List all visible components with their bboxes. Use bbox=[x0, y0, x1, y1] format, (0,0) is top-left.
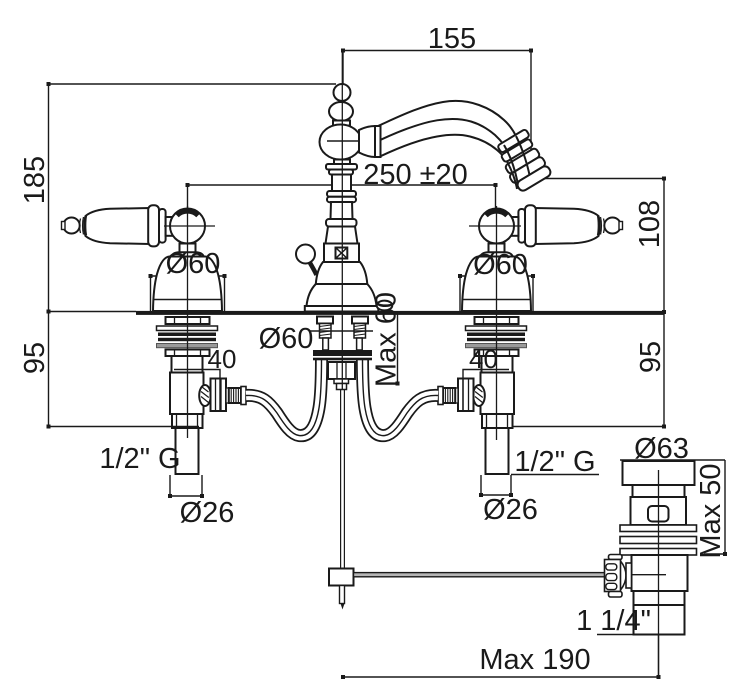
svg-text:Max 190: Max 190 bbox=[479, 644, 590, 676]
right handle end knob bbox=[604, 218, 620, 234]
main body ball bbox=[320, 125, 362, 160]
right tee body bbox=[481, 373, 515, 415]
right stud nut bbox=[352, 317, 368, 324]
right handle collar disc 2 bbox=[518, 209, 525, 243]
dim Max190 right extension bbox=[658, 635, 660, 678]
right knob tip bbox=[619, 222, 623, 230]
overflow window bbox=[648, 506, 669, 522]
right shank bbox=[482, 356, 513, 373]
right stud rod bbox=[357, 338, 363, 350]
column neck bbox=[334, 160, 350, 165]
left outlet neck bbox=[226, 388, 229, 403]
rod line inside body bbox=[632, 574, 667, 576]
left outlet collar bbox=[241, 387, 246, 405]
column cylinder 2 bbox=[331, 202, 353, 219]
right handle neck bbox=[507, 217, 518, 236]
dim 155 line bbox=[343, 50, 531, 52]
UNDER-DECK bbox=[157, 317, 527, 474]
right washer 2 black bbox=[467, 333, 525, 337]
rod grommet oval bbox=[377, 301, 393, 311]
right bell inner line bbox=[463, 299, 530, 301]
valve block bbox=[324, 244, 359, 263]
aerator band 2 bbox=[501, 138, 534, 162]
drain step bbox=[634, 591, 685, 605]
dim O63 top line bbox=[620, 459, 725, 461]
bell tier 2 bbox=[307, 284, 377, 306]
center shank nut bbox=[328, 362, 355, 379]
left tee outlet cap bbox=[199, 385, 211, 406]
dim 95 right bottom extension bbox=[509, 426, 664, 428]
DRAIN bbox=[605, 461, 697, 635]
HANDLES bbox=[62, 205, 623, 311]
FAUCET bbox=[296, 84, 552, 312]
dim 1-1/4 underline bbox=[597, 634, 685, 636]
left handle grip bbox=[84, 208, 149, 244]
dim 95 left bottom extension bbox=[49, 426, 200, 428]
left knob tip bbox=[62, 222, 66, 230]
svg-text:1 1/4": 1 1/4" bbox=[576, 605, 651, 637]
dim Max50 bracket bbox=[704, 460, 725, 554]
right ball index cap bbox=[484, 208, 509, 217]
svg-text:Ø63: Ø63 bbox=[634, 433, 689, 465]
pop-up knob bbox=[296, 245, 315, 264]
svg-text:40: 40 bbox=[469, 344, 498, 374]
right locknut bbox=[475, 317, 519, 324]
left washer 2 black bbox=[158, 333, 216, 337]
dim O26 left witness box bbox=[170, 475, 202, 496]
right collar below tee bbox=[482, 414, 513, 428]
horizontal rod bbox=[354, 573, 607, 577]
svg-text:Max 60: Max 60 bbox=[371, 292, 403, 387]
wheel connector bbox=[626, 563, 632, 588]
aerator band 3 bbox=[504, 147, 540, 174]
drain centerline bbox=[658, 470, 660, 677]
svg-text:185: 185 bbox=[19, 156, 51, 204]
left bell inner line bbox=[154, 299, 221, 301]
bell base ring bbox=[305, 306, 379, 312]
dim 108/95 right vertical line bbox=[663, 179, 665, 427]
pop-up knob arm bbox=[310, 262, 317, 275]
svg-text:40: 40 bbox=[208, 344, 237, 374]
rod clamp block bbox=[329, 569, 354, 586]
drain washer 1 bbox=[620, 525, 697, 532]
finial collar bbox=[333, 121, 350, 126]
clamp plate bbox=[313, 350, 372, 356]
spout body bbox=[378, 101, 516, 161]
bell tier 1 bbox=[316, 262, 368, 284]
deck plate line bbox=[136, 311, 664, 315]
dim 40 left leader bbox=[174, 370, 220, 413]
drain washer 3 bbox=[620, 549, 697, 556]
faucet centerline bbox=[341, 51, 343, 390]
svg-text:250 ±20: 250 ±20 bbox=[363, 159, 468, 191]
left inlet tube bbox=[176, 428, 199, 474]
left outlet hex nut bbox=[211, 379, 227, 412]
aerator band 5 bbox=[516, 165, 553, 193]
right tee outlet cap bbox=[473, 385, 485, 406]
HOSES bbox=[246, 359, 438, 436]
dim 1/2G right underline bbox=[511, 474, 599, 476]
dim 250 left stub bbox=[187, 185, 189, 208]
left stud thread bbox=[320, 324, 332, 339]
rod tip bbox=[341, 604, 345, 610]
svg-text:95: 95 bbox=[635, 341, 667, 373]
left handle centerline bbox=[187, 206, 189, 438]
right washer 1 bbox=[466, 326, 527, 331]
left handle collar disc 2 bbox=[159, 209, 166, 243]
drain tailpiece bbox=[634, 605, 685, 635]
svg-text:155: 155 bbox=[428, 23, 476, 55]
right stud thread bbox=[354, 324, 366, 339]
left stud nut bbox=[317, 317, 333, 324]
right valve skirt bbox=[480, 252, 513, 258]
right bell bbox=[462, 257, 531, 312]
right outlet neck bbox=[455, 388, 458, 403]
column cylinder 1 bbox=[332, 175, 351, 192]
aerator band 1 bbox=[497, 129, 530, 153]
dim 250 line bbox=[188, 184, 496, 186]
left washer 1 bbox=[157, 326, 218, 331]
spout hub flange bbox=[375, 126, 381, 157]
body ball center line bbox=[327, 140, 374, 142]
right inlet tube bbox=[486, 428, 509, 474]
centerline overlay bbox=[49, 51, 659, 678]
right handle centerline bbox=[496, 206, 498, 440]
svg-text:Ø60: Ø60 bbox=[166, 248, 221, 280]
svg-text:1/2" G: 1/2" G bbox=[99, 443, 180, 475]
CENTER UNDER-DECK bbox=[313, 317, 607, 610]
knurled clamp wheel bottom cap bbox=[609, 592, 623, 598]
dim 185 top extension bbox=[49, 83, 337, 85]
knurled clamp wheel body bbox=[605, 560, 621, 592]
wheel right lobe bbox=[621, 561, 627, 590]
column torus 1 bbox=[327, 191, 356, 197]
right washer 3 black bbox=[467, 338, 525, 341]
wheel slot 1 bbox=[606, 564, 617, 570]
left valve stem bbox=[180, 244, 196, 253]
dim O60 center leader bbox=[309, 330, 373, 332]
wheel slot 2 bbox=[606, 574, 617, 581]
drain neck bbox=[633, 485, 685, 497]
deck thin extension left bbox=[49, 311, 137, 313]
left handle neck bbox=[166, 217, 177, 236]
svg-text:Ø26: Ø26 bbox=[483, 494, 538, 526]
right washer 4 gray bbox=[466, 344, 527, 348]
left valve skirt bbox=[171, 252, 204, 258]
finial lower ball bbox=[329, 102, 353, 121]
spout bottom line over tip bbox=[507, 161, 518, 190]
right outlet hex nut bbox=[458, 379, 474, 412]
right valve stem bbox=[489, 244, 505, 253]
svg-text:Ø26: Ø26 bbox=[180, 497, 235, 529]
svg-text:108: 108 bbox=[634, 200, 666, 248]
dim Max60 bracket bbox=[377, 315, 398, 384]
cartridge X box bbox=[336, 248, 348, 259]
spout top line over tip bbox=[516, 136, 530, 175]
dim 250 right stub bbox=[495, 185, 497, 208]
right valve ball bbox=[479, 209, 514, 244]
left nut 2 bbox=[166, 350, 210, 357]
left valve ball bbox=[170, 209, 205, 244]
drain washer 2 bbox=[620, 537, 697, 544]
svg-text:Ø60: Ø60 bbox=[473, 249, 528, 281]
aerator band 4 bbox=[509, 156, 547, 185]
right outlet collar bbox=[438, 387, 443, 405]
left collar below tee bbox=[172, 414, 203, 428]
left stud rod bbox=[323, 338, 329, 350]
left ball index cap bbox=[175, 208, 200, 217]
dim O60 right witness box bbox=[460, 276, 533, 312]
pop-up rod bbox=[340, 390, 342, 569]
left tee body bbox=[170, 373, 204, 415]
dim Max190 line bbox=[343, 676, 659, 678]
right nut 2 bbox=[475, 350, 519, 357]
column ring 3 bbox=[326, 219, 357, 227]
svg-text:1/2" G: 1/2" G bbox=[514, 446, 595, 478]
left handle collar disc bbox=[148, 205, 159, 246]
finial ball bbox=[334, 84, 351, 101]
dim 185/95 left vertical line bbox=[48, 84, 50, 427]
right outlet nipple threaded bbox=[443, 388, 455, 403]
left washer 4 gray bbox=[157, 344, 218, 348]
right handle grip bbox=[535, 208, 600, 244]
spout mid line over tip bbox=[504, 145, 518, 182]
left hose outer bbox=[246, 359, 322, 436]
right handle grip rings bbox=[598, 216, 605, 235]
dim O26 right witness box bbox=[481, 475, 511, 495]
column torus 2 bbox=[327, 197, 356, 202]
drain upper body bbox=[631, 497, 687, 525]
svg-text:Max 50: Max 50 bbox=[695, 463, 727, 558]
svg-text:95: 95 bbox=[19, 342, 51, 374]
left shank bbox=[172, 356, 203, 373]
dim 108 top extension bbox=[531, 178, 664, 180]
left washer 3 black bbox=[158, 338, 216, 341]
svg-text:Ø60: Ø60 bbox=[259, 323, 314, 355]
center shank step bbox=[334, 379, 349, 384]
right handle cross line bbox=[469, 225, 521, 227]
left bell bbox=[153, 257, 222, 312]
drain flange bbox=[623, 461, 695, 485]
knurled clamp wheel top cap bbox=[609, 555, 623, 560]
rod lower end bbox=[340, 586, 345, 604]
left locknut bbox=[166, 317, 210, 324]
drain lower body bbox=[632, 555, 688, 591]
dim 40 right leader bbox=[463, 370, 509, 413]
column ring 2 bbox=[329, 170, 353, 175]
left outlet nipple threaded bbox=[229, 388, 241, 403]
spout hub bbox=[359, 126, 375, 157]
left handle cross line bbox=[164, 225, 215, 227]
wheel slot 3 bbox=[606, 583, 617, 589]
dim 155 extension left bbox=[342, 51, 344, 86]
spout mid line bbox=[377, 119, 504, 145]
column taper bbox=[326, 227, 358, 244]
right hose outer bbox=[363, 359, 439, 436]
left handle end knob bbox=[63, 218, 79, 234]
dim 155 extension right bbox=[530, 51, 532, 179]
center shank tip bbox=[337, 384, 347, 390]
right handle collar disc bbox=[525, 205, 536, 246]
left handle grip rings bbox=[80, 216, 87, 235]
dim O60 left witness box bbox=[151, 276, 225, 312]
column ring 1 bbox=[326, 164, 357, 170]
